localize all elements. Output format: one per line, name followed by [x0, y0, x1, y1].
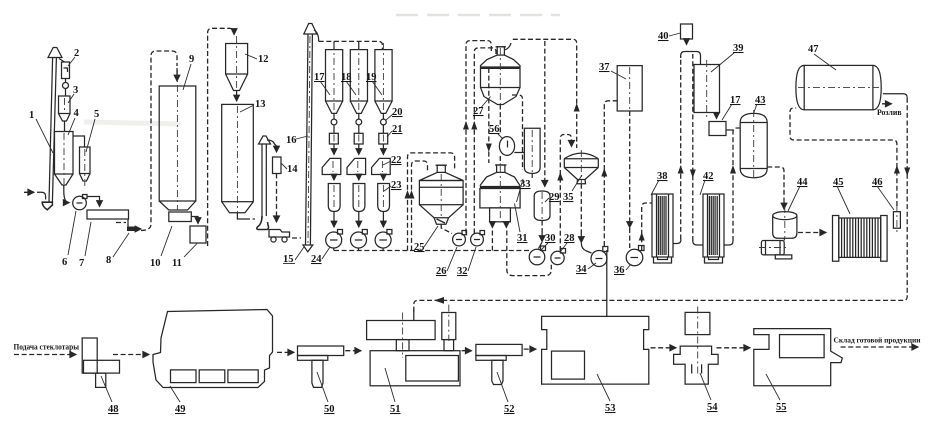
- pump 36: [626, 246, 644, 266]
- hopper train 17: [322, 43, 343, 251]
- svg-text:16: 16: [286, 135, 297, 146]
- gate 8: [127, 219, 141, 231]
- tank 29: [534, 191, 550, 221]
- node label 11: [172, 244, 197, 270]
- filter 43: [740, 110, 767, 180]
- svg-text:19: 19: [366, 72, 377, 83]
- node label 25: [414, 226, 438, 253]
- node label 22: [383, 155, 402, 166]
- node label 1: [29, 110, 53, 153]
- svg-text:53: 53: [605, 403, 616, 414]
- feeder 14: [273, 157, 282, 174]
- wire: 4 outlet to pump 6: [64, 185, 69, 203]
- svg-text:29: 29: [549, 192, 560, 203]
- apparatus 31: [480, 165, 520, 222]
- column 13: [222, 104, 254, 212]
- node label 4: [68, 108, 80, 135]
- node label 48: [101, 376, 119, 415]
- wire: conveyor 48 to 49: [113, 354, 149, 356]
- svg-text:8: 8: [106, 255, 111, 266]
- hopper train 18: [347, 43, 368, 251]
- wire: feed arrow into elevator 1: [24, 191, 34, 193]
- column 16: [303, 24, 317, 252]
- node label 26: [436, 247, 457, 277]
- node label 46: [872, 177, 894, 210]
- wire: 10 to 11: [191, 217, 198, 224]
- wire: 56 to tank 33: [514, 152, 524, 154]
- wire: 47 right to descender: [883, 94, 907, 98]
- svg-text:40: 40: [658, 31, 669, 42]
- node label 36: [614, 264, 631, 276]
- wire: 38 right hook riser: [673, 240, 681, 244]
- wire: conveyor 53 to 54: [651, 347, 677, 349]
- svg-text:48: 48: [108, 404, 119, 415]
- wire: conveyor 52 to 53: [524, 348, 536, 350]
- wire: 27 outlet down to blower 56: [499, 105, 501, 135]
- node label 20: [386, 107, 403, 120]
- node label 34: [576, 263, 596, 275]
- svg-text:52: 52: [504, 404, 515, 415]
- wire: risers to mixer 25: [408, 153, 455, 251]
- svg-text:28: 28: [564, 233, 575, 244]
- node label 30: [541, 233, 556, 250]
- wire: pump discharge bus: [334, 250, 530, 252]
- node label 33: [517, 179, 531, 202]
- wire: dashes after 7: [116, 222, 126, 224]
- wire: 46 riser to tank 47: [790, 108, 897, 206]
- wire: 44 to filter 45: [798, 232, 826, 234]
- wire: cart 15 to column 16 foot: [292, 237, 301, 239]
- svg-text:39: 39: [733, 43, 744, 54]
- column 39: [694, 60, 720, 118]
- node label 5: [86, 109, 99, 152]
- node label 27: [473, 97, 491, 118]
- svg-text:4: 4: [74, 108, 80, 119]
- wire: pump 6 to conveyor 7: [87, 197, 100, 207]
- node label 12: [245, 54, 269, 65]
- svg-text:44: 44: [797, 177, 808, 188]
- pump 28: [551, 249, 566, 265]
- heat exchanger 42: [703, 194, 724, 263]
- wire: long return line to washer 51: [414, 300, 903, 312]
- wire: bus line to tank 29: [544, 41, 546, 187]
- node label 53: [597, 374, 616, 414]
- wire: conveyor 51 to 52: [462, 350, 472, 352]
- node label 6: [62, 211, 76, 268]
- wire: 37 down to pump 36: [629, 111, 631, 219]
- node label 54: [700, 373, 718, 413]
- filter-press 45: [833, 216, 888, 262]
- svg-text:5: 5: [94, 109, 99, 120]
- node label 9: [183, 54, 194, 90]
- wire: conveyor 50 to 51: [345, 350, 361, 352]
- pump 6: [73, 195, 87, 210]
- wire: 2 to 3 with rotary valve: [63, 79, 69, 96]
- svg-text:13: 13: [255, 99, 266, 110]
- discharger 10: [169, 212, 192, 222]
- wire: box 17 to riser: [726, 129, 733, 131]
- node label 21: [387, 124, 403, 137]
- node label 43: [754, 95, 766, 113]
- cart 15: [269, 230, 290, 243]
- unloader 48: [82, 338, 119, 387]
- wire: cone right to 31 dome: [512, 95, 523, 170]
- conveyor 7: [87, 210, 129, 219]
- pump 34: [591, 247, 608, 267]
- node label 3: [68, 85, 78, 103]
- vessel 5: [80, 147, 91, 186]
- wire: 39 to box 17: [716, 113, 718, 119]
- svg-text:14: 14: [287, 164, 298, 175]
- hopper 40: [681, 24, 693, 39]
- svg-text:30: 30: [545, 233, 556, 244]
- svg-text:11: 11: [172, 258, 182, 269]
- node label 19: [366, 72, 382, 95]
- filler 51: [367, 305, 460, 386]
- tank 9: [159, 70, 196, 210]
- wire: 35 outlet to pump 34: [580, 184, 582, 234]
- wire: 4 top to vessel 5: [73, 136, 85, 147]
- vessel 3: [59, 96, 71, 121]
- wire: riser 26 to reactor 27: [466, 41, 491, 234]
- node label 47: [808, 44, 836, 70]
- svg-text:23: 23: [391, 180, 402, 191]
- svg-text:Склад готовой продукции: Склад готовой продукции: [834, 336, 922, 345]
- wire: pump 36 to exchanger 38: [642, 203, 652, 250]
- wire: 14 down to cart 15: [276, 174, 278, 223]
- bin 11: [190, 226, 206, 243]
- node label 10: [150, 226, 172, 269]
- scan artifact streaks: [396, 14, 560, 17]
- node label 2: [68, 48, 79, 66]
- wire: 42 left hook riser: [693, 241, 703, 245]
- svg-text:1: 1: [29, 110, 34, 121]
- hopper train 19: [372, 43, 393, 251]
- node label 23: [384, 180, 402, 191]
- reactor 27: [481, 47, 521, 105]
- node label 40: [658, 31, 681, 42]
- counter 54: [674, 307, 719, 385]
- node label 8: [106, 233, 129, 266]
- node label 16: [286, 135, 308, 146]
- wire: bottling offtake: [882, 103, 892, 105]
- svg-text:7: 7: [79, 258, 84, 269]
- tank 47: [796, 65, 881, 109]
- svg-text:45: 45: [833, 177, 844, 188]
- svg-text:Розлив: Розлив: [877, 108, 902, 117]
- svg-text:36: 36: [614, 265, 625, 276]
- wire: riser from 11 up over vessel 12: [208, 28, 234, 246]
- svg-text:27: 27: [473, 106, 484, 117]
- wire: dome left line down to 31: [488, 68, 490, 163]
- wire: feed conveyor arrow: [14, 354, 76, 356]
- svg-text:51: 51: [390, 404, 401, 415]
- wire: 25 outlet to pumps: [441, 224, 452, 233]
- box 17: [709, 122, 726, 136]
- node label 39: [711, 43, 744, 72]
- wire: 3 to 4: [64, 121, 66, 132]
- node label 55: [766, 374, 787, 413]
- wire: 42 right hook riser to box 17: [724, 241, 733, 245]
- wire: 13 bottom to small elevator boot: [237, 213, 245, 219]
- node label 32: [457, 247, 476, 277]
- node label 7: [79, 222, 91, 269]
- svg-text:9: 9: [189, 54, 194, 65]
- wire: column 16 top bus to hoppers: [314, 30, 319, 41]
- node label 35: [563, 175, 582, 203]
- svg-text:25: 25: [414, 242, 425, 253]
- packer 55: [754, 329, 843, 386]
- elevator 1: [37, 48, 65, 210]
- wire: 40 down to manifold: [686, 39, 688, 45]
- wire: 33 outlet stub: [531, 173, 533, 178]
- pump 30: [529, 246, 545, 265]
- svg-text:32: 32: [457, 266, 468, 277]
- wire: pump 28 riser to 35: [560, 135, 571, 252]
- svg-text:35: 35: [563, 192, 574, 203]
- node label 49: [170, 386, 186, 415]
- svg-text:50: 50: [324, 404, 335, 415]
- lantern 46: [893, 205, 900, 234]
- svg-text:26: 26: [436, 266, 447, 277]
- wire: conveyor 49 to 50: [277, 351, 294, 353]
- node label 42: [700, 171, 714, 195]
- capper 52: [476, 344, 522, 384]
- vessel 12: [226, 36, 248, 91]
- wire: 29 to pump 30: [541, 221, 543, 233]
- node label 50: [317, 372, 335, 415]
- node label 29: [545, 192, 560, 203]
- vessel 4: [55, 132, 74, 186]
- wire: drop to machine 53: [606, 250, 608, 316]
- washer 49: [153, 310, 273, 388]
- svg-text:17: 17: [314, 72, 325, 83]
- wire: 43 to mixer 44: [767, 167, 784, 200]
- node label 13: [240, 99, 266, 112]
- node label 28: [560, 233, 575, 252]
- node label 45: [833, 177, 850, 214]
- svg-text:6: 6: [62, 257, 67, 268]
- svg-text:20: 20: [392, 107, 403, 118]
- wire: arrow into tank 9: [176, 68, 178, 81]
- node label 52: [497, 372, 515, 415]
- wire: 31 outlets down: [491, 222, 493, 228]
- svg-text:31: 31: [517, 233, 528, 244]
- node label 51: [385, 368, 401, 415]
- pump 26: [453, 231, 467, 246]
- node label 17b: [722, 95, 741, 120]
- column 37: [617, 66, 642, 111]
- node label 15: [283, 247, 304, 265]
- svg-text:10: 10: [150, 258, 161, 269]
- inspection 50: [298, 346, 344, 387]
- svg-text:24: 24: [311, 254, 322, 265]
- heat exchanger 38: [652, 194, 673, 263]
- svg-text:49: 49: [175, 404, 186, 415]
- mixer 44 with drive: [759, 206, 797, 259]
- node label 44: [788, 177, 808, 211]
- labeller 53: [542, 316, 649, 384]
- pump 32: [471, 231, 485, 246]
- svg-text:37: 37: [599, 62, 610, 73]
- wire: outfeed arrow: [841, 346, 918, 348]
- node label 56: [489, 124, 503, 139]
- elevator (aux): [257, 136, 277, 230]
- wire: conveyor 54 to 55: [717, 347, 751, 349]
- node label 14: [281, 163, 298, 175]
- svg-text:55: 55: [776, 402, 787, 413]
- node label 38: [651, 171, 668, 195]
- node label 17: [314, 72, 330, 95]
- wire: aux elevator down via feeder 14: [276, 146, 278, 152]
- blower 56: [499, 137, 514, 156]
- wire: top bus 27 to 35 riser: [504, 43, 511, 50]
- svg-text:47: 47: [808, 44, 819, 55]
- wire: riser 32 to reactor 27: [474, 48, 496, 234]
- svg-text:54: 54: [707, 402, 718, 413]
- node label 18: [341, 72, 356, 95]
- svg-text:21: 21: [392, 124, 403, 135]
- wire: riser from 8 up over tank 9: [141, 51, 177, 231]
- separator 35: [564, 150, 598, 184]
- svg-text:12: 12: [258, 54, 269, 65]
- feeder 2: [62, 62, 70, 79]
- node label 24: [311, 247, 330, 265]
- svg-text:34: 34: [576, 264, 587, 275]
- wire: 12 to column 13: [236, 91, 238, 102]
- mixer 25: [419, 165, 463, 224]
- svg-text:Подача стеклотары: Подача стеклотары: [14, 342, 80, 352]
- svg-text:22: 22: [391, 155, 402, 166]
- tank 33: [524, 128, 540, 173]
- wire: pump 34 riser to 37: [604, 101, 617, 246]
- node label 31: [515, 204, 528, 245]
- node label 37: [599, 62, 626, 79]
